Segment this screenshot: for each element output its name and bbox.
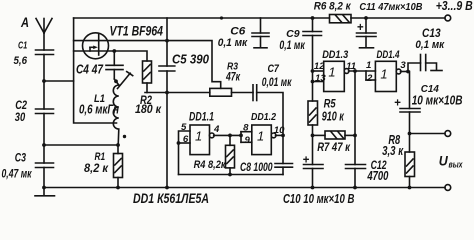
ground C11 bbox=[360, 47, 374, 49]
svg-text:10 мк×10В: 10 мк×10В bbox=[412, 93, 463, 108]
resistor R1 bbox=[114, 145, 123, 188]
svg-text:C8 1000: C8 1000 bbox=[240, 160, 273, 174]
resistor R3 trimmer bbox=[210, 88, 232, 96]
wire antenna column C2-C3 bbox=[43, 114, 45, 164]
terminal Uvyh bottom bbox=[445, 185, 451, 191]
capacitor C13 bbox=[408, 55, 437, 72]
capacitor C10 bbox=[304, 135, 324, 187]
wire output row to terminal bbox=[410, 133, 446, 135]
wire C3 to bottom rail bbox=[43, 168, 45, 188]
winding start dot of L1 bbox=[123, 135, 126, 138]
transistor VT1 bbox=[83, 33, 109, 59]
gate DD1.3 bbox=[324, 61, 349, 91]
wire DD1.3 out to DD1.4 bbox=[349, 70, 376, 72]
wire source row bbox=[74, 51, 147, 61]
wire DD1.4 output node bbox=[401, 71, 409, 73]
gate DD1.1 bbox=[190, 125, 214, 155]
ground C6 bbox=[254, 47, 267, 49]
trimmer arrow of L1 bbox=[118, 72, 133, 89]
wire DD1.1 output row bbox=[214, 134, 241, 136]
resistor R2 bbox=[143, 61, 152, 93]
ground bottom left bbox=[35, 188, 55, 196]
svg-text:R6 8,2 к: R6 8,2 к bbox=[314, 0, 351, 12]
svg-text:C1: C1 bbox=[18, 40, 27, 52]
svg-text:3,3 к: 3,3 к bbox=[382, 143, 403, 158]
svg-text:R7 47 к: R7 47 к bbox=[317, 140, 350, 154]
svg-text:0,1 мк: 0,1 мк bbox=[218, 37, 249, 49]
svg-text:C6: C6 bbox=[230, 26, 246, 38]
svg-text:+: + bbox=[303, 154, 310, 166]
svg-text:0,6 мкГн: 0,6 мкГн bbox=[79, 103, 119, 117]
wire row y92.5 R2 to R3 bbox=[145, 92, 210, 94]
svg-text:C3: C3 bbox=[15, 153, 27, 165]
svg-text:A: A bbox=[20, 14, 29, 30]
svg-text:вых: вых bbox=[449, 159, 464, 170]
wire antenna tap y81 bbox=[44, 80, 74, 82]
svg-text:13: 13 bbox=[315, 73, 326, 84]
capacitor C12 bbox=[346, 165, 366, 188]
wire DD1.3 out vertical down to C12 bbox=[354, 71, 356, 165]
gate DD1.4 bbox=[375, 61, 401, 91]
svg-text:0,1 мк: 0,1 мк bbox=[279, 40, 305, 52]
wire bottom rail bbox=[44, 187, 445, 189]
wire R7 right to vertical bbox=[345, 134, 355, 136]
capacitor C8 bbox=[275, 164, 293, 175]
svg-text:+: + bbox=[394, 98, 401, 110]
wire antenna column C1-C2 bbox=[43, 55, 45, 110]
svg-text:+3...9 В: +3...9 В bbox=[436, 0, 473, 13]
wire top rail left segment bbox=[74, 17, 330, 19]
svg-text:R4 8,2к: R4 8,2к bbox=[194, 159, 227, 171]
svg-text:9: 9 bbox=[245, 135, 251, 146]
capacitor C9 bbox=[303, 18, 322, 36]
antenna A bbox=[36, 19, 52, 51]
svg-text:DD1.3: DD1.3 bbox=[322, 49, 349, 61]
wire C5 bottom to bottom rail bbox=[166, 71, 168, 188]
capacitor C14 bbox=[400, 72, 420, 153]
svg-text:+: + bbox=[357, 22, 364, 34]
svg-text:C5 390: C5 390 bbox=[172, 52, 210, 67]
svg-text:5: 5 bbox=[181, 122, 187, 133]
svg-text:0,47 мк: 0,47 мк bbox=[2, 168, 33, 180]
svg-text:8,2 к: 8,2 к bbox=[84, 161, 109, 175]
svg-text:1: 1 bbox=[257, 129, 264, 144]
resistor R5 bbox=[308, 101, 318, 135]
gate DD1.2 bbox=[252, 125, 276, 155]
svg-text:8: 8 bbox=[243, 123, 249, 134]
svg-text:DD1.1: DD1.1 bbox=[189, 111, 214, 123]
svg-text:C7: C7 bbox=[268, 63, 280, 75]
svg-text:2: 2 bbox=[366, 73, 373, 84]
wire C5 vertical rail to row bbox=[166, 18, 168, 66]
svg-text:3: 3 bbox=[400, 60, 406, 71]
svg-text:1: 1 bbox=[195, 129, 202, 144]
resistor R6 bbox=[330, 15, 352, 23]
ground C13 bbox=[431, 70, 442, 72]
svg-text:12: 12 bbox=[314, 61, 325, 72]
svg-text:0,01 мк: 0,01 мк bbox=[262, 77, 292, 89]
svg-text:180 к: 180 к bbox=[135, 104, 162, 116]
wire top rail right segment bbox=[351, 17, 445, 19]
svg-text:0,1 мк: 0,1 мк bbox=[415, 39, 445, 51]
capacitor C3 bbox=[36, 163, 54, 168]
wire DD1.4 input tie bbox=[366, 71, 375, 80]
svg-text:DD1.2: DD1.2 bbox=[251, 111, 276, 123]
svg-text:C11 47мк×10В: C11 47мк×10В bbox=[359, 2, 422, 13]
svg-text:C4 47: C4 47 bbox=[76, 63, 104, 77]
wire multivibrator loop bottom bbox=[179, 174, 284, 176]
terminal Uvyh top bbox=[445, 131, 451, 137]
svg-text:10: 10 bbox=[274, 125, 285, 136]
svg-text:1: 1 bbox=[328, 65, 335, 80]
svg-text:DD1 К561ЛЕ5А: DD1 К561ЛЕ5А bbox=[133, 191, 209, 206]
svg-text:30: 30 bbox=[15, 110, 26, 124]
wire C9 down to R5 bbox=[312, 36, 314, 102]
svg-text:DD1.4: DD1.4 bbox=[377, 49, 401, 61]
wire C7 down to DD1.2 output node bbox=[257, 93, 283, 164]
resistor R7 bbox=[325, 131, 345, 139]
svg-text:4700: 4700 bbox=[367, 168, 389, 183]
wire drain to R3 wiper bbox=[74, 41, 221, 89]
wire DD1.2 input tie bbox=[241, 132, 252, 143]
terminal +3...9V bbox=[445, 15, 451, 21]
wire DD1.1 input tie bbox=[179, 131, 191, 175]
resistor R8 bbox=[405, 152, 415, 188]
capacitor C1 bbox=[36, 50, 54, 55]
inductor L1 bbox=[113, 85, 119, 145]
wire tank row y145 bbox=[44, 144, 118, 146]
svg-text:910 к: 910 к bbox=[322, 108, 345, 123]
svg-text:6: 6 bbox=[183, 134, 189, 145]
svg-text:1: 1 bbox=[380, 67, 387, 82]
capacitor C2 bbox=[36, 109, 54, 114]
svg-text:1: 1 bbox=[366, 60, 371, 71]
capacitor C6 bbox=[252, 18, 269, 47]
svg-text:C10 10 мк×10 В: C10 10 мк×10 В bbox=[283, 191, 355, 206]
svg-text:4: 4 bbox=[213, 124, 220, 135]
svg-text:47к: 47к bbox=[225, 72, 241, 84]
wire DD1.3 input stubs bbox=[313, 71, 324, 82]
capacitor C5 bbox=[159, 66, 175, 71]
resistor R4 bbox=[226, 135, 235, 174]
capacitor C7 bbox=[253, 85, 257, 101]
capacitor C11 bbox=[357, 18, 377, 47]
svg-text:U: U bbox=[439, 154, 449, 169]
svg-text:5,6: 5,6 bbox=[14, 55, 28, 67]
wire R5 bottom node to R7 bbox=[313, 134, 326, 136]
svg-text:C9: C9 bbox=[286, 29, 300, 40]
capacitor C4 bbox=[106, 51, 123, 85]
wire DD1.2 output bbox=[276, 134, 284, 136]
svg-text:11: 11 bbox=[346, 61, 356, 72]
svg-text:VT1 BF964: VT1 BF964 bbox=[110, 24, 164, 39]
wire left vertical gate bus bbox=[74, 18, 117, 123]
wire R3 to C7 bbox=[232, 92, 254, 94]
